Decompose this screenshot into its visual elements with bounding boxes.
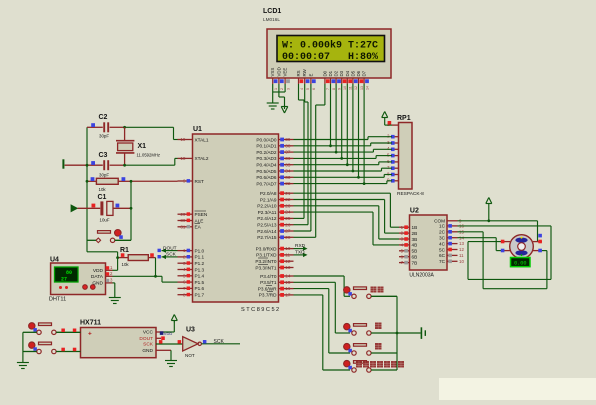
- svg-text:2: 2: [280, 88, 284, 90]
- svg-text:15: 15: [285, 280, 291, 285]
- wire left rail vertical: [86, 127, 88, 252]
- svg-text:13: 13: [360, 86, 364, 90]
- mcu U1 pin P3.6/WR 16: [258, 285, 294, 291]
- terminal TXD at P3.1: [294, 250, 308, 258]
- svg-text:6B: 6B: [412, 255, 418, 260]
- svg-text:SCK: SCK: [214, 339, 225, 345]
- driver U2 pin 1B 1: [399, 225, 417, 230]
- respack RP1 pin 5: [387, 153, 399, 158]
- respack RP1 pin 9: [387, 178, 399, 183]
- wire bus AD4 P0.4 to RP1: [294, 162, 393, 165]
- svg-text:DHT11: DHT11: [49, 297, 66, 303]
- svg-text:3C: 3C: [439, 236, 446, 241]
- wire LCD D0 to P2.7: [294, 84, 325, 237]
- svg-text:P1.5: P1.5: [195, 280, 205, 285]
- svg-text:2: 2: [183, 255, 186, 260]
- svg-text:34: 34: [285, 169, 291, 174]
- wire P2.2 to U2 3B: [294, 206, 400, 239]
- driver U2 pin 2B 2: [399, 231, 417, 236]
- wire LCD RW to P2.5: [294, 84, 309, 225]
- svg-text:VSS: VSS: [270, 68, 275, 77]
- wire U4 GND to ground: [113, 283, 115, 297]
- mcu U1 pin EA 31: [178, 224, 202, 230]
- svg-text:GND: GND: [92, 281, 103, 287]
- wire R1 to DATA net: [154, 258, 157, 278]
- wire U2 3C to motor left-bottom: [458, 238, 502, 251]
- state square R1 left: [121, 253, 125, 257]
- svg-text:26: 26: [285, 222, 291, 227]
- mcu U1 pin P2.7/A15 28: [257, 235, 293, 240]
- respack RP1 pin 6: [387, 159, 399, 164]
- module HX711 pin GND: [142, 348, 171, 360]
- LCD pin 3 VEE: [283, 68, 291, 90]
- svg-text:RXD: RXD: [295, 243, 306, 249]
- mcu U1 pin P3.7/RD 17: [259, 292, 294, 298]
- mcu U1 pin P2.4/A12 25: [257, 216, 293, 221]
- svg-text:P1.2: P1.2: [195, 261, 205, 266]
- wire LCD RS to P2.4: [294, 84, 305, 218]
- svg-text:7: 7: [326, 88, 330, 90]
- button K4 label: [356, 361, 404, 368]
- module HX711 pin VCC: [143, 330, 164, 336]
- svg-text:ALE: ALE: [195, 218, 204, 223]
- capacitor C1 electrolytic: [78, 201, 132, 222]
- mcu U1 pin P1.5 6: [178, 280, 205, 285]
- button S2 load minus: [23, 342, 81, 354]
- mcu U1 pin P3.5/T1 15: [260, 280, 293, 285]
- driver U2 pin 6B 6: [399, 254, 417, 259]
- svg-text:P2.7/A15: P2.7/A15: [257, 235, 277, 240]
- svg-text:LCD1: LCD1: [263, 8, 281, 15]
- driver U2 pin 2C 15: [439, 229, 464, 234]
- svg-text:DATA: DATA: [91, 274, 104, 280]
- wire buttons to ground: [22, 332, 24, 362]
- svg-text:R1: R1: [120, 247, 129, 254]
- junction C1 right: [130, 207, 133, 210]
- mcu U1 pin PSEN 29: [178, 211, 208, 217]
- mcu U1 pin P2.0/A8 21: [260, 191, 294, 196]
- motor M1 rpm display: [511, 258, 531, 267]
- wire LCD VSS to ground: [272, 84, 274, 97]
- wire U2 2C to motor right-bottom loop: [458, 232, 547, 289]
- svg-text:U1: U1: [193, 126, 202, 133]
- svg-text:37: 37: [285, 150, 291, 155]
- ground left buttons: [22, 361, 24, 364]
- junction R1 left: [116, 256, 119, 259]
- respack RP1 pin 3: [387, 140, 399, 145]
- svg-text:27: 27: [285, 229, 291, 234]
- svg-text:39: 39: [285, 137, 291, 142]
- module HX711 pin DOUT: [139, 336, 164, 342]
- svg-text:36: 36: [285, 156, 291, 161]
- svg-text:5: 5: [183, 273, 186, 278]
- power arrow above HX711: [171, 315, 174, 321]
- wire buttons to battery: [396, 332, 421, 335]
- power arrow motor supply: [486, 198, 492, 223]
- svg-text:C3: C3: [99, 152, 108, 159]
- svg-text:P2.5/A13: P2.5/A13: [257, 223, 277, 228]
- driver U2 pin 4C 13: [439, 241, 464, 246]
- svg-text:4C: 4C: [439, 241, 446, 246]
- svg-text:P0.7/AD7: P0.7/AD7: [256, 181, 276, 186]
- mcu U1 pin P1.0 1: [178, 248, 205, 253]
- wire LCD D4 down to bus: [346, 84, 349, 166]
- mcu U1 pin P0.7/AD7 32: [256, 181, 293, 186]
- driver U2 pin 7C 10: [439, 259, 464, 264]
- sensor U4 pin GND 3: [92, 278, 113, 287]
- svg-text:D0: D0: [322, 70, 327, 76]
- svg-text:25: 25: [285, 216, 291, 221]
- svg-text:RST: RST: [195, 179, 205, 184]
- svg-text:P3.6/WR: P3.6/WR: [258, 286, 277, 291]
- svg-text:P3.0/RXD: P3.0/RXD: [256, 246, 277, 251]
- state square R1 right: [150, 253, 154, 257]
- svg-text:P3.3/INT1: P3.3/INT1: [255, 265, 276, 270]
- svg-text:P1.1: P1.1: [195, 255, 205, 260]
- svg-text:11: 11: [459, 253, 464, 258]
- svg-text:HX711: HX711: [80, 320, 101, 327]
- mcu U1 pin P3.1/TXD 11: [256, 253, 293, 258]
- svg-text:30pF: 30pF: [99, 173, 109, 178]
- svg-text:2C: 2C: [439, 230, 446, 235]
- svg-text:12: 12: [354, 86, 358, 90]
- svg-text:P2.1/A9: P2.1/A9: [260, 197, 277, 202]
- svg-text:GND: GND: [142, 348, 153, 354]
- LCD pin 12 D5: [350, 70, 358, 90]
- LCD pin 1 VSS: [270, 68, 278, 90]
- svg-text:5B: 5B: [412, 249, 418, 254]
- svg-text:D3: D3: [339, 70, 344, 76]
- svg-text:38: 38: [285, 143, 291, 148]
- svg-text:5: 5: [306, 88, 310, 90]
- wire bus AD0 P0.0 to RP1: [294, 137, 393, 140]
- svg-text:8: 8: [332, 88, 336, 90]
- svg-text:10k: 10k: [99, 187, 107, 192]
- respack RP1 body: [399, 123, 413, 190]
- svg-text:7B: 7B: [412, 260, 418, 265]
- svg-text:D7: D7: [362, 70, 367, 76]
- driver U2 pin COM 9: [434, 218, 462, 223]
- mcu U1 pin ALE 30: [178, 218, 204, 223]
- LCD LCD1 body: [267, 29, 391, 78]
- wire LCD D7 down to bus: [363, 84, 366, 185]
- svg-text:12: 12: [285, 259, 291, 264]
- svg-text:30pF: 30pF: [99, 134, 109, 139]
- ground below HX711 GND: [170, 359, 172, 362]
- svg-text:VCC: VCC: [143, 330, 154, 336]
- button S1 load plus: [23, 323, 81, 335]
- state square C1 right: [116, 204, 120, 208]
- wire bus AD5 P0.5 to RP1: [294, 168, 393, 171]
- sensor U4 knobs: [59, 285, 95, 290]
- svg-text:P3.4/T0: P3.4/T0: [260, 274, 277, 279]
- svg-text:P3.7/RD: P3.7/RD: [259, 293, 277, 298]
- driver U2 pin 4B 4: [399, 243, 417, 248]
- driver U2 pin 6C 11: [439, 253, 464, 258]
- LCD pin 6 E: [308, 74, 316, 91]
- watermark panel bottom-right: [439, 378, 596, 400]
- svg-text:24: 24: [285, 210, 291, 215]
- svg-text:P0.4/AD4: P0.4/AD4: [256, 163, 276, 168]
- svg-text:P2.4/A12: P2.4/A12: [257, 216, 277, 221]
- mcu U1 pin P1.7 8: [178, 292, 205, 297]
- mcu U1 pin RST 9: [178, 179, 205, 184]
- svg-text:D4: D4: [345, 70, 350, 76]
- driver U2 body: [410, 215, 448, 270]
- mcu U1 pin P1.6 7: [178, 286, 205, 291]
- svg-text:28: 28: [285, 235, 291, 240]
- svg-text:17: 17: [285, 293, 291, 298]
- resistor R1: [118, 255, 156, 267]
- ground below LCD VSS: [272, 97, 274, 103]
- mcu U1 pin XTAL1 19: [178, 137, 209, 142]
- wire HX711 VCC to power arrow: [160, 323, 175, 336]
- svg-text:31: 31: [180, 224, 186, 229]
- svg-text:13: 13: [285, 265, 291, 270]
- svg-text:5C: 5C: [439, 247, 446, 252]
- svg-text:13: 13: [459, 241, 464, 246]
- driver U2 pin 5B 5: [399, 248, 417, 253]
- svg-text:EA: EA: [195, 225, 202, 230]
- wire U4 DATA to P1.5: [113, 276, 178, 282]
- svg-text:TXD: TXD: [295, 250, 305, 256]
- svg-text:U3: U3: [186, 327, 195, 334]
- LCD pin 14 D7: [362, 70, 370, 90]
- wire LCD D5 down to bus: [352, 84, 355, 172]
- mcu U1 pin P3.3/INT1 13: [255, 264, 293, 270]
- svg-text:22: 22: [285, 197, 291, 202]
- svg-text:P0.0/AD0: P0.0/AD0: [256, 137, 276, 142]
- svg-text:2B: 2B: [412, 231, 418, 236]
- svg-text:11.0592MHz: 11.0592MHz: [137, 153, 160, 158]
- driver U2 pin 5C 12: [439, 247, 464, 252]
- wire bus AD1 P0.1 to RP1: [294, 143, 393, 146]
- svg-text:11: 11: [349, 86, 353, 90]
- svg-text:12: 12: [459, 247, 464, 252]
- svg-text:C1: C1: [98, 194, 107, 201]
- mcu U1 body STC89C52: [193, 134, 279, 302]
- gate U3 NOT triangle: [183, 337, 202, 351]
- svg-text:P1.7: P1.7: [195, 293, 205, 298]
- mcu U1 pin P0.4/AD4 35: [256, 162, 293, 167]
- LCD pin 2 VDD: [276, 67, 284, 90]
- svg-text:LM016L: LM016L: [263, 17, 280, 22]
- driver U2 pin 3B 3: [399, 237, 417, 242]
- svg-text:RW: RW: [302, 68, 307, 76]
- button K1 label: [371, 287, 384, 293]
- LCD pin 9 D2: [334, 70, 342, 90]
- svg-text:33: 33: [285, 175, 291, 180]
- button K2 label: [375, 323, 382, 330]
- svg-text:D6: D6: [356, 70, 361, 76]
- svg-text:27: 27: [61, 276, 67, 282]
- wire P3.6 to button K3: [294, 289, 351, 353]
- LCD pin 10 D3: [339, 70, 347, 90]
- button K1 reset: [344, 287, 397, 299]
- svg-text:XTAL1: XTAL1: [195, 137, 209, 142]
- svg-text:DOUT: DOUT: [139, 336, 153, 342]
- wire LCD D2 down to bus: [335, 84, 338, 154]
- wire rail to R1 branch: [87, 252, 118, 270]
- svg-text:DOUT: DOUT: [163, 245, 177, 251]
- LCD pin 13 D6: [356, 70, 364, 90]
- wire P2.3 to U2 4B: [294, 212, 400, 245]
- svg-text:P0.5/AD5: P0.5/AD5: [256, 169, 276, 174]
- sensor U4 pin VDD 1: [93, 265, 113, 274]
- svg-text:+: +: [88, 331, 92, 338]
- svg-text:3: 3: [183, 261, 186, 266]
- svg-text:ULN2003A: ULN2003A: [409, 273, 434, 279]
- svg-text:D1: D1: [328, 70, 333, 76]
- state square R2 right: [122, 177, 126, 181]
- LCD pin 4 RS: [296, 70, 304, 90]
- mcu U1 pin P2.3/A11 24: [258, 210, 294, 215]
- svg-text:1B: 1B: [412, 225, 418, 230]
- LCD pin 7 D0: [322, 70, 330, 90]
- capacitor C3: [65, 160, 125, 177]
- svg-text:3: 3: [286, 88, 290, 90]
- wire P2.0 to U2 1B: [294, 193, 400, 227]
- mcu U1 pin P0.3/AD3 36: [256, 156, 293, 161]
- svg-text:VEE: VEE: [283, 68, 288, 77]
- svg-text:1: 1: [183, 248, 186, 253]
- svg-text:23: 23: [285, 203, 291, 208]
- svg-text:6: 6: [312, 88, 316, 90]
- wire U2 1C to motor left-top loop: [458, 226, 552, 280]
- svg-text:6: 6: [183, 280, 186, 285]
- mcu U1 pin P1.3 4: [178, 267, 205, 272]
- terminal DOUT at P1.0: [158, 245, 178, 252]
- svg-text:P1.0: P1.0: [195, 248, 205, 253]
- svg-text:D5: D5: [350, 70, 355, 76]
- terminal SCK at P1.1: [158, 252, 178, 259]
- svg-text:11: 11: [285, 253, 290, 258]
- button K2 plus: [344, 323, 397, 335]
- sensor U4 pin DATA 2: [91, 271, 113, 280]
- svg-text:P0.3/AD3: P0.3/AD3: [256, 156, 276, 161]
- wire R2 to RST: [86, 180, 178, 183]
- svg-text:35: 35: [285, 162, 291, 167]
- svg-text:VDD: VDD: [93, 268, 104, 274]
- mcu U1 pin P0.1/AD1 38: [256, 143, 293, 148]
- wire U3 output SCK: [201, 339, 240, 345]
- button K4 mode: [344, 360, 397, 372]
- svg-text:NOT: NOT: [185, 353, 195, 358]
- mcu U1 pin P0.0/AD0 39: [256, 137, 293, 142]
- wire LCD D1 down to bus: [329, 84, 332, 147]
- svg-text:VDD: VDD: [276, 67, 281, 76]
- mcu U1 pin P1.1 2: [178, 255, 205, 260]
- svg-text:P0.6/AD6: P0.6/AD6: [256, 175, 276, 180]
- button K3 label: [375, 343, 382, 350]
- svg-text:18: 18: [180, 156, 186, 161]
- state square C2 left: [91, 123, 95, 127]
- svg-text:29: 29: [180, 212, 186, 217]
- svg-text:1: 1: [274, 88, 278, 90]
- svg-text:9: 9: [183, 179, 186, 184]
- LCD pin 11 D4: [345, 70, 353, 90]
- wire P3.5 to button K2: [294, 282, 351, 333]
- svg-text:80: 80: [66, 270, 72, 276]
- mcu U1 pin P2.5/A13 26: [257, 222, 293, 227]
- motor M1 state squares: [501, 234, 542, 253]
- wire bus AD6 P0.6 to RP1: [294, 175, 393, 178]
- svg-text:W: 0.000k9 T:27C: W: 0.000k9 T:27C: [282, 39, 378, 51]
- wire P3.7 to button K4: [294, 295, 351, 370]
- battery cell: [421, 327, 426, 339]
- svg-text:1C: 1C: [439, 224, 446, 229]
- svg-text:RP1: RP1: [397, 115, 411, 122]
- motor M1 pins: [501, 242, 542, 251]
- respack RP1 pin 8: [387, 171, 399, 176]
- sensor U4 body DHT11: [51, 263, 106, 295]
- svg-text:RS: RS: [296, 70, 301, 76]
- svg-text:16: 16: [285, 286, 291, 291]
- mcu U1 pin P3.4/T0 14: [260, 274, 293, 279]
- wire U2 COM to motor right-top: [458, 221, 538, 242]
- terminal RXD at P3.0: [294, 243, 308, 251]
- svg-text:00:00:07 H:80%: 00:00:07 H:80%: [282, 52, 378, 63]
- respack RP1 pin 2: [387, 134, 399, 139]
- mcu U1 pin P0.2/AD2 37: [256, 150, 293, 155]
- svg-text:10: 10: [459, 259, 464, 264]
- svg-text:19: 19: [180, 137, 186, 142]
- resistor R2 reset pulldown: [87, 178, 131, 192]
- wire LCD VEE join VSS: [273, 84, 285, 92]
- state square C1 left: [92, 204, 96, 208]
- state square R2 left: [91, 177, 95, 181]
- svg-text:7: 7: [183, 286, 186, 291]
- svg-text:P2.6/A14: P2.6/A14: [257, 229, 277, 234]
- svg-text:30: 30: [180, 218, 186, 223]
- crystal X1: [116, 127, 134, 165]
- svg-text:P2.3/A11: P2.3/A11: [258, 210, 277, 215]
- svg-text:10uF: 10uF: [100, 218, 110, 223]
- svg-text:STC89C52: STC89C52: [241, 307, 281, 313]
- svg-text:21: 21: [285, 191, 291, 196]
- mcu U1 pin P3.0/RXD 10: [256, 246, 294, 251]
- svg-text:D2: D2: [334, 70, 339, 76]
- driver U2 pin 1C 16: [439, 224, 464, 229]
- mcu U1 pin P0.6/AD6 33: [256, 175, 293, 180]
- svg-text:6C: 6C: [439, 253, 446, 258]
- reset button: [87, 230, 131, 243]
- svg-text:P0.1/AD1: P0.1/AD1: [256, 144, 276, 149]
- state square C3 left: [91, 161, 95, 165]
- wire C3 to XTAL2: [86, 158, 178, 166]
- capacitor C2: [87, 122, 125, 138]
- wire LCD D6 down to bus: [357, 84, 360, 179]
- mcu U1 pin P0.5/AD5 34: [256, 169, 293, 174]
- svg-text:PSEN: PSEN: [195, 212, 208, 217]
- mcu U1 pin P1.4 5: [178, 273, 205, 278]
- wire bus AD2 P0.2 to RP1: [294, 149, 393, 152]
- svg-text:4: 4: [300, 88, 304, 90]
- LCD pin 8 D1: [328, 70, 336, 90]
- sensor U4 screen: [55, 267, 79, 282]
- svg-text:10: 10: [285, 246, 291, 251]
- svg-text:4: 4: [183, 267, 186, 272]
- mcu U1 pin P2.1/A9 22: [260, 197, 294, 202]
- respack RP1 pin 1: [387, 121, 399, 127]
- svg-text:14: 14: [365, 86, 369, 90]
- wire LCD E to P2.6: [294, 84, 311, 231]
- mcu U1 pin P2.2/A10 23: [257, 203, 293, 208]
- svg-text:3B: 3B: [412, 237, 418, 242]
- wire P2.1 to U2 2B: [294, 200, 400, 234]
- svg-text:SCK: SCK: [166, 252, 177, 258]
- module HX711 body: [81, 328, 157, 358]
